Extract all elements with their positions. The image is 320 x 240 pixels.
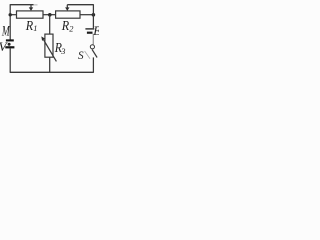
wire middle rail left stub [10,14,16,16]
svg-text:2: 2 [69,24,73,33]
wire middle rail between R1 and R2 [43,14,56,16]
wire right vertical upper [92,4,94,28]
resistor R3 [45,34,53,57]
charged particle between plates [8,43,11,46]
wire top-left rail faint tail [34,4,38,6]
svg-text:3: 3 [60,47,65,56]
wire battery to switch [92,34,94,45]
node junction dot left [9,13,12,16]
wire top-left rail [10,4,33,6]
switch S terminal circle [90,45,94,49]
capacitor bottom plate N [5,46,14,48]
label R2 [61,18,74,33]
label R3 [54,40,65,56]
battery E short plate [87,32,93,34]
label R1 [25,18,38,33]
switch S lever [92,50,97,58]
node junction dot right [92,13,96,17]
wire left vertical upper [9,4,11,39]
wire bottom rail [10,71,94,73]
resistor R1 [17,11,44,18]
resistor R2 [56,11,80,18]
rheostat wiper arrow onto R2 [65,5,69,11]
faint ghost stroke left of lever [85,51,90,59]
svg-text:1: 1 [33,24,37,33]
variable-resistor arrow through R3 [41,36,56,61]
battery E long plate [85,28,94,30]
node junction dot (R3 tap) [48,13,52,17]
svg-text:M: M [1,24,10,40]
rheostat wiper arrow onto R1 [29,5,33,11]
wire R3 branch bottom [49,57,51,72]
svg-text:S: S [78,50,84,62]
wire left vertical lower [9,48,11,72]
capacitor top plate M [6,39,14,41]
wire top-right rail [67,4,93,6]
wire middle rail right stub [80,14,93,16]
wire switch to bottom corner [92,57,94,72]
wire R3 branch top [49,15,51,34]
